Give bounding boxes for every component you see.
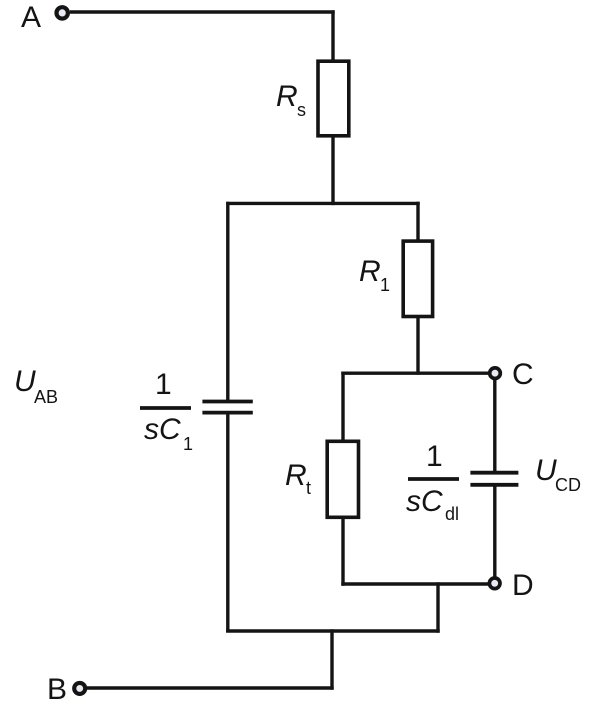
svg-text:R: R (359, 255, 381, 288)
svg-text:dl: dl (445, 504, 459, 524)
svg-text:AB: AB (34, 387, 58, 407)
wire R1 bottom to node C row (416, 317, 419, 375)
svg-text:B: B (47, 673, 67, 706)
terminal A (57, 7, 68, 18)
svg-text:R: R (285, 459, 307, 492)
svg-text:U: U (535, 454, 557, 487)
svg-text:D: D (512, 569, 534, 602)
wire top horizontal of parallel section (226, 202, 419, 205)
wire B rail horizontal (86, 686, 334, 689)
wire A terminal to top-right corner (70, 10, 335, 13)
wire Rt bottom to inner loop bottom (341, 517, 344, 585)
wire drop from bottom bus to B rail (330, 629, 333, 689)
wire node C down to Cdl top plate (493, 380, 496, 471)
label 1/sCdl fraction bar (408, 477, 459, 481)
wire right branch down to R1 top (416, 202, 419, 241)
svg-text:CD: CD (555, 475, 581, 495)
svg-text:1: 1 (426, 440, 443, 473)
wire C1 bottom plate down to bottom bus (226, 414, 229, 633)
wire inner loop bottom to node D (341, 582, 488, 585)
wire Cdl bottom plate down to node D (493, 486, 496, 576)
resistor Rs (318, 61, 349, 136)
svg-text:sC: sC (144, 413, 181, 446)
resistor R1 (403, 241, 432, 316)
wire drop from inner loop bottom to bottom bus (436, 582, 439, 632)
svg-text:1: 1 (380, 275, 390, 295)
wire Rs bottom to split junction (331, 136, 334, 205)
label 1/sC1 fraction bar (140, 406, 191, 410)
terminal B (74, 683, 85, 694)
node D terminal (489, 578, 500, 589)
resistor Rt (327, 441, 358, 517)
svg-text:R: R (276, 80, 298, 113)
wire horizontal at node C level (341, 372, 488, 375)
svg-text:U: U (14, 365, 36, 398)
wire Rt branch down from C row (341, 372, 344, 442)
wire bottom bus horizontal (226, 629, 440, 632)
svg-text:1: 1 (155, 368, 172, 401)
svg-text:A: A (21, 1, 41, 34)
svg-text:t: t (306, 478, 311, 498)
svg-text:C: C (512, 358, 534, 391)
svg-text:sC: sC (406, 485, 443, 518)
capacitor Cdl plates (470, 473, 518, 485)
capacitor C1 plates (202, 402, 252, 413)
wire left branch down to C1 top plate (226, 202, 229, 400)
wire corner down to Rs top (331, 10, 334, 61)
svg-text:1: 1 (183, 434, 193, 454)
node C terminal (490, 368, 501, 379)
svg-text:s: s (297, 100, 306, 120)
